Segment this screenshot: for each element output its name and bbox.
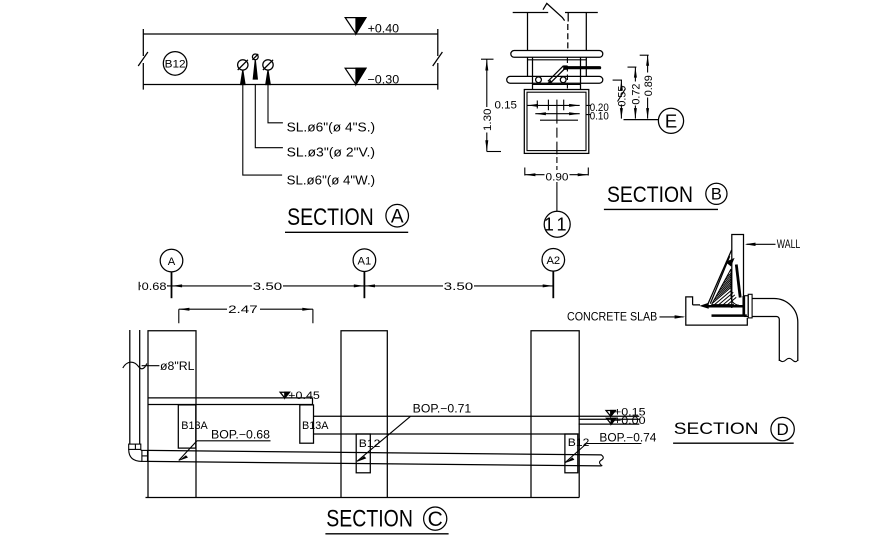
grid node A2 (542, 248, 565, 271)
wire: level line mid (579, 418, 640, 420)
hanger frame left inner (532, 57, 534, 89)
sleeve box B12 right (565, 434, 578, 473)
label WALL (745, 239, 801, 251)
node B12 callout circle (163, 52, 187, 76)
grid node A (160, 249, 183, 272)
bracket diagonal outer (708, 250, 732, 304)
hanger top rail (528, 59, 587, 61)
concrete slab outline (686, 297, 748, 325)
svg-text:2.47: 2.47 (228, 304, 258, 316)
wire: section A slab top line (143, 33, 438, 35)
leader ticks 0.20 0.10 (586, 105, 590, 114)
riser coupling (129, 444, 141, 449)
svg-text:0.89: 0.89 (643, 75, 655, 96)
label 8RL leader (142, 365, 160, 367)
svg-text:11: 11 (544, 215, 571, 235)
sleeve symbol right 6" (263, 60, 273, 85)
diagonal brace (547, 65, 568, 84)
svg-text:CONCRETE SLAB: CONCRETE SLAB (567, 311, 658, 323)
gusset hatch (712, 269, 740, 305)
svg-text:B13A: B13A (302, 420, 329, 432)
wire: section A slab bottom line (143, 84, 438, 86)
sleeve box B13A left (178, 405, 196, 448)
hanger frame right inner (580, 57, 582, 89)
dim 0.72 right (628, 67, 643, 119)
svg-text:B12: B12 (165, 58, 186, 70)
wire: pipe column top edge (513, 12, 598, 14)
svg-text:SECTION: SECTION (326, 506, 413, 533)
wire: leader to node E (624, 119, 659, 121)
column at grid A (148, 331, 196, 498)
sleeve symbol left 6" (238, 60, 248, 85)
pipe sleeve pill lower (507, 76, 603, 83)
wire: pipe run bottom (sloped) (148, 461, 602, 466)
svg-text:0.90: 0.90 (546, 171, 569, 183)
svg-text:0.10: 0.10 (590, 110, 609, 122)
grid node A1 (353, 249, 376, 272)
centerline mid dashed (566, 58, 568, 90)
section A right break line (433, 29, 443, 90)
title SECTION C (325, 506, 448, 534)
callout BOP.-0.71 (357, 403, 472, 462)
bracket diagonal inner (710, 256, 729, 303)
ground line (146, 497, 580, 499)
callout BOP.-0.74 (565, 433, 657, 463)
dim 2.47 (179, 304, 313, 324)
svg-text:ø8"RL: ø8"RL (160, 361, 195, 373)
svg-text:BOP.−0.71: BOP.−0.71 (413, 403, 472, 415)
wire: sleeve line B12 level (314, 433, 579, 435)
wire: leader sleeve S (268, 85, 283, 123)
pipe elbow (129, 449, 142, 461)
elevation marker -0.30 (345, 68, 399, 86)
node E callout (658, 108, 683, 133)
dim 0.89 right (640, 55, 655, 118)
svg-text:BOP.−0.68: BOP.−0.68 (211, 430, 270, 442)
svg-text:1.30: 1.30 (482, 109, 494, 132)
svg-text:SECTION: SECTION (287, 204, 374, 231)
anchor bolt left (536, 77, 542, 83)
wire: leader sleeve W (243, 85, 282, 176)
pipe line 3 (540, 119, 578, 121)
pipe end break (600, 455, 604, 466)
pipe dim line 2 (535, 112, 579, 115)
riser pipe 8RL (130, 330, 140, 444)
section A left break line (138, 29, 148, 90)
svg-text:+0.00: +0.00 (614, 415, 646, 427)
elevation marker +0.15 (606, 406, 646, 418)
dim 1.30 left (481, 59, 501, 151)
svg-text:C: C (428, 508, 443, 531)
sleeve box B12 mid (356, 434, 370, 473)
svg-text:SL.ø3"(ø 2"V.): SL.ø3"(ø 2"V.) (287, 145, 376, 159)
wire: column cut inner edge (567, 13, 569, 22)
wire: leader sleeve V (255, 85, 283, 148)
riser break mark (123, 362, 147, 369)
sleeve box B13A right (300, 405, 314, 443)
grid tick A1 (363, 272, 365, 299)
pit centerline (556, 100, 558, 212)
svg-text:+0.40: +0.40 (368, 21, 400, 35)
svg-text:−0.30: −0.30 (367, 72, 399, 86)
svg-text:A: A (391, 207, 404, 228)
bearing line (533, 83, 581, 85)
hanger frame right outer (585, 57, 587, 76)
svg-text:SL.ø6"(ø 4"S.): SL.ø6"(ø 4"S.) (287, 121, 376, 135)
label CONCRETE SLAB (567, 311, 685, 323)
svg-text:B: B (711, 186, 722, 204)
dim text 3.50 a (252, 281, 283, 293)
column at grid A2 (531, 331, 579, 498)
pit box outer (524, 90, 589, 154)
title SECTION D (673, 417, 794, 443)
svg-text:SECTION: SECTION (607, 182, 693, 207)
pipe sleeve pill upper (511, 51, 603, 58)
svg-text:D: D (776, 420, 788, 439)
svg-text:WALL: WALL (777, 239, 801, 251)
elevation marker +0.00 (607, 415, 646, 427)
title SECTION A (285, 204, 409, 232)
svg-text:B13A: B13A (181, 420, 208, 432)
slab band bottom line (148, 404, 313, 406)
wire: pipe run top (sloped) (148, 450, 602, 455)
horizontal pipe coupling (142, 450, 148, 461)
grid tick A (171, 272, 173, 298)
column at grid A1 (341, 331, 387, 498)
brace support bar bold (566, 66, 600, 69)
break symbol top (543, 3, 565, 20)
dim 0.55 right struck (613, 80, 629, 119)
slab band end edge (312, 398, 314, 405)
dim text 0.68 (141, 281, 167, 293)
dim 0.90 bottom (525, 168, 589, 184)
pipe tick marks (537, 100, 563, 111)
sleeve symbol middle 3" (252, 54, 258, 79)
title SECTION B (604, 182, 727, 210)
svg-text:0.68: 0.68 (142, 281, 167, 293)
svg-text:3.50: 3.50 (253, 281, 283, 293)
anchor bolt right (560, 77, 566, 83)
clamp strut bold (699, 258, 746, 317)
svg-text:+0.45: +0.45 (288, 390, 320, 402)
svg-text:0.15: 0.15 (495, 99, 518, 111)
pit box inner (527, 92, 586, 150)
svg-text:BOP.−0.74: BOP.−0.74 (599, 433, 657, 445)
dim line 0.15 in pit (527, 104, 579, 107)
pipe end break D (779, 358, 798, 361)
elevation marker +0.40 (345, 18, 399, 36)
hanger frame left outer (527, 57, 529, 76)
svg-text:SL.ø6"(ø 4"W.): SL.ø6"(ø 4"W.) (287, 174, 376, 188)
pipe union coupling (745, 294, 753, 318)
slab band top line (148, 397, 313, 399)
callout BOP.-0.68 (178, 430, 270, 461)
svg-text:A1: A1 (358, 256, 372, 268)
wire: level line +0.15 (314, 415, 640, 417)
dim chain line (139, 282, 553, 290)
node 11 callout (544, 211, 571, 237)
svg-text:B12: B12 (568, 437, 590, 449)
dim text 3.50 b (443, 281, 474, 293)
svg-text:0.55: 0.55 (617, 86, 629, 107)
wire: level line +0.00 (579, 423, 640, 425)
svg-text:SECTION: SECTION (674, 419, 759, 438)
svg-text:3.50: 3.50 (444, 281, 474, 293)
svg-text:0.72: 0.72 (631, 84, 643, 105)
wall (732, 235, 744, 317)
svg-text:E: E (665, 110, 677, 131)
wire: column left edge (527, 13, 529, 52)
grid tick A2 (552, 271, 554, 298)
elevation marker +0.45 (280, 390, 320, 402)
wire: column right edge (585, 13, 587, 52)
svg-text:A: A (168, 256, 176, 268)
pipe elbow D (752, 299, 798, 362)
svg-text:A2: A2 (546, 255, 560, 267)
